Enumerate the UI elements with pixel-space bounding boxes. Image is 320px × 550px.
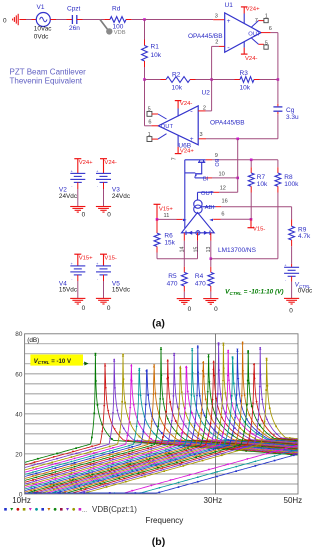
svg-text:VDB(Cpzt:1): VDB(Cpzt:1) xyxy=(92,505,137,514)
svg-text:2: 2 xyxy=(203,105,206,111)
power V24- (net flag) xyxy=(100,158,107,160)
pin 15 wire xyxy=(197,233,199,241)
op-amp U1 OPA445/BB xyxy=(225,13,261,52)
pin 16 ABI wire xyxy=(202,206,215,208)
svg-text:80: 80 xyxy=(15,331,23,338)
junction xyxy=(250,218,253,221)
no-connect pin 1 (U1) xyxy=(251,21,258,28)
svg-text:+: + xyxy=(227,18,231,25)
U2 pin 2 wire xyxy=(198,110,205,112)
svg-text:V24-: V24- xyxy=(180,101,192,107)
svg-text:10k: 10k xyxy=(172,84,183,91)
OTA triangle xyxy=(182,213,215,233)
svg-text:OUT: OUT xyxy=(161,124,174,130)
svg-text:(dB): (dB) xyxy=(27,337,39,344)
svg-text:+: + xyxy=(284,263,286,267)
junction xyxy=(210,257,213,260)
svg-text:60: 60 xyxy=(15,371,23,378)
svg-text:470: 470 xyxy=(195,280,206,287)
svg-text:V15+: V15+ xyxy=(159,206,173,212)
battery V5 15Vdc xyxy=(103,254,105,266)
U2 output pin 6 xyxy=(151,125,158,127)
junction xyxy=(236,138,239,141)
pin 11 wire (V+) xyxy=(183,219,187,222)
svg-text:V15-: V15- xyxy=(104,256,116,262)
svg-text:+: + xyxy=(71,169,73,173)
svg-text:6: 6 xyxy=(221,212,224,218)
svg-text:R4: R4 xyxy=(195,273,204,280)
svg-text:5: 5 xyxy=(148,107,151,113)
svg-text:1: 1 xyxy=(265,13,268,19)
wire R8 bottom to pin 13 xyxy=(211,258,278,260)
no-connect pin 5 (U2) xyxy=(147,111,152,116)
svg-text:R7: R7 xyxy=(257,174,266,181)
svg-text:V24+: V24+ xyxy=(79,160,93,166)
pin 9 BO wire xyxy=(206,159,212,161)
junction xyxy=(156,218,159,221)
wire (vertical x=237.7) xyxy=(237,139,239,178)
ground (V2) xyxy=(70,206,85,208)
OTA U6B LM13700/NS symbol spine xyxy=(184,160,186,228)
svg-text:10Vac: 10Vac xyxy=(34,26,52,33)
svg-text:U1: U1 xyxy=(225,2,234,9)
transistor Q2 (buffer Darlington bottom) xyxy=(195,173,202,175)
svg-text:15Vdc: 15Vdc xyxy=(59,287,78,294)
svg-text:R6: R6 xyxy=(164,232,173,239)
svg-text:V15+: V15+ xyxy=(79,256,93,262)
AC source V1 xyxy=(36,13,50,27)
capacitor Cpzt xyxy=(71,15,73,24)
svg-text:14: 14 xyxy=(179,247,185,253)
horizontal gridlines xyxy=(25,343,298,345)
battery V3 24Vdc xyxy=(103,159,105,174)
svg-text:20: 20 xyxy=(15,451,23,458)
resistor R1 xyxy=(144,20,146,40)
svg-text:3: 3 xyxy=(200,132,203,138)
no-connect pin 5 (U1) xyxy=(251,38,258,44)
svg-text:U2: U2 xyxy=(202,90,211,97)
svg-text:10Hz: 10Hz xyxy=(12,496,31,505)
resistor R7 xyxy=(250,160,252,167)
junction xyxy=(236,177,239,180)
svg-text:OPA445/BB: OPA445/BB xyxy=(210,120,245,127)
power V15+ xyxy=(154,203,161,205)
svg-text:ABI: ABI xyxy=(205,205,215,211)
svg-text:0: 0 xyxy=(82,212,86,219)
svg-text:30Hz: 30Hz xyxy=(204,496,223,505)
svg-text:(b): (b) xyxy=(152,536,165,548)
svg-text:24Vdc: 24Vdc xyxy=(112,193,131,200)
svg-text:26n: 26n xyxy=(69,25,80,32)
resistor R6 xyxy=(156,219,158,233)
resistor Rd xyxy=(104,19,110,21)
svg-text:4.7k: 4.7k xyxy=(298,233,311,240)
wire xyxy=(50,19,56,21)
svg-text:15Vdc: 15Vdc xyxy=(112,287,131,294)
svg-text:6: 6 xyxy=(269,26,272,32)
battery V4 15Vdc xyxy=(77,254,79,266)
pin 14 wire xyxy=(183,233,185,241)
svg-text:6: 6 xyxy=(148,120,151,126)
svg-text:3.3u: 3.3u xyxy=(286,114,299,121)
svg-text:V24-: V24- xyxy=(245,56,257,62)
svg-text:R8: R8 xyxy=(284,174,293,181)
ground (V5) xyxy=(96,297,111,299)
svg-text:2: 2 xyxy=(215,40,218,46)
junction xyxy=(143,78,146,81)
svg-text:100k: 100k xyxy=(284,181,299,188)
power V15- xyxy=(250,219,252,227)
svg-text:(a): (a) xyxy=(152,318,165,330)
svg-text:R5: R5 xyxy=(168,273,177,280)
svg-text:Cpzt: Cpzt xyxy=(67,5,81,12)
power V24+ (net flag) xyxy=(74,158,81,160)
junction xyxy=(250,159,253,162)
svg-text:10k: 10k xyxy=(240,84,251,91)
svg-text:5: 5 xyxy=(265,40,268,46)
ground 0 (input source) xyxy=(17,14,19,25)
pin 12 OUT wire xyxy=(197,192,199,200)
svg-text:0: 0 xyxy=(82,305,86,312)
curves xyxy=(25,341,320,494)
svg-text:LM13700/NS: LM13700/NS xyxy=(218,247,257,254)
battery VCTRL xyxy=(291,264,293,267)
svg-text:R1: R1 xyxy=(151,44,160,51)
power V24+ (U1 pin 7) xyxy=(241,6,248,8)
svg-text:11: 11 xyxy=(164,213,170,219)
ground (R4) xyxy=(203,298,218,300)
ground (VCTRL) xyxy=(284,297,299,299)
power V24+ (U2 pin 7) xyxy=(177,135,179,147)
svg-text:3: 3 xyxy=(215,14,218,20)
svg-text:+: + xyxy=(96,262,98,266)
svg-text:BO: BO xyxy=(213,159,219,167)
svg-text:Rd: Rd xyxy=(112,5,121,12)
current mirror circles xyxy=(194,200,202,208)
resistor R9 xyxy=(291,207,293,220)
svg-text:Frequency: Frequency xyxy=(146,516,184,525)
svg-text:...: ... xyxy=(82,508,87,514)
svg-text:470: 470 xyxy=(167,280,178,287)
svg-text:0: 0 xyxy=(214,306,218,313)
svg-text:13: 13 xyxy=(206,247,212,253)
svg-text:0: 0 xyxy=(289,308,293,315)
wire R6 to pin 15 xyxy=(157,258,198,260)
svg-text:R3: R3 xyxy=(240,70,249,77)
svg-text:0: 0 xyxy=(107,212,111,219)
svg-text:12: 12 xyxy=(220,186,226,192)
vertical gridline 30Hz xyxy=(214,334,216,494)
svg-text:0Vdc: 0Vdc xyxy=(298,288,313,295)
wire xyxy=(77,19,83,21)
svg-text:BI: BI xyxy=(203,177,209,183)
power V24- (U1 pin 4) xyxy=(243,42,245,48)
wire xyxy=(26,19,32,21)
svg-text:VDB: VDB xyxy=(114,30,126,36)
wire to U1 pin 3 xyxy=(145,19,214,21)
resistor R2 xyxy=(145,79,161,81)
battery V2 24Vdc xyxy=(77,159,79,174)
ground (V4) xyxy=(70,297,85,299)
svg-text:V24+: V24+ xyxy=(246,6,260,12)
svg-text:V24-: V24- xyxy=(104,160,116,166)
svg-text:0Vdc: 0Vdc xyxy=(34,33,49,40)
svg-text:0: 0 xyxy=(107,305,111,312)
transistor Q1 (buffer Darlington top) xyxy=(198,161,205,163)
power V15+ (net flag) xyxy=(74,253,81,255)
svg-text:15k: 15k xyxy=(164,239,175,246)
svg-text:R2: R2 xyxy=(172,71,181,78)
junction xyxy=(277,78,280,81)
resistor R8 xyxy=(277,160,279,167)
svg-text:50Hz: 50Hz xyxy=(284,496,303,505)
probe VDB xyxy=(100,20,107,30)
svg-text:V15-: V15- xyxy=(253,227,265,233)
svg-text:OUT: OUT xyxy=(248,31,261,37)
resistor R4 xyxy=(210,259,212,267)
svg-text:OUT: OUT xyxy=(201,191,214,197)
svg-text:10k: 10k xyxy=(151,52,162,59)
wire xyxy=(212,79,235,81)
svg-text:24Vdc: 24Vdc xyxy=(59,193,78,200)
diode D2 (bias, right) xyxy=(209,231,211,235)
U1 pin 2 wire xyxy=(219,45,225,47)
svg-text:7: 7 xyxy=(172,157,178,160)
svg-text:10: 10 xyxy=(219,172,225,178)
ground (R5) xyxy=(177,298,192,300)
wire U1 out bus xyxy=(277,33,279,80)
op-amp U2 OPA445/BB (mirrored) xyxy=(158,106,198,145)
yellow VCTRL=-10V label xyxy=(30,355,83,366)
power V15- (net flag) xyxy=(100,253,107,255)
wire xyxy=(260,79,278,81)
svg-text:+: + xyxy=(96,169,98,173)
svg-text:0: 0 xyxy=(188,306,192,313)
pin 10 BI wire xyxy=(206,177,213,179)
svg-text:+: + xyxy=(71,262,73,266)
svg-text:0: 0 xyxy=(3,17,7,24)
wire xyxy=(132,19,145,21)
capacitor Cg xyxy=(273,106,282,108)
ground (V3) xyxy=(96,206,111,208)
no-connect pin 1 (U2) xyxy=(147,137,152,142)
resistor R5 xyxy=(183,267,185,273)
svg-text:16: 16 xyxy=(222,198,228,204)
frequency response chart frame xyxy=(25,334,298,494)
junction xyxy=(210,78,213,81)
bias current source circle xyxy=(196,231,200,235)
power V24- (U2 pin 4) xyxy=(175,100,182,102)
svg-text:U6B: U6B xyxy=(178,143,191,150)
diode D1 (bias, left) xyxy=(185,231,187,235)
svg-text:Cg: Cg xyxy=(286,107,295,114)
pin 13 wire xyxy=(210,233,212,241)
svg-text:40: 40 xyxy=(15,411,23,418)
svg-text:Thevenin Equivalent: Thevenin Equivalent xyxy=(10,76,83,85)
legend trace symbols xyxy=(4,508,7,511)
wire xyxy=(196,79,212,81)
svg-text:V1: V1 xyxy=(37,4,45,11)
svg-text:15: 15 xyxy=(193,247,199,253)
svg-text:10k: 10k xyxy=(257,181,268,188)
pin 6 wire (V-) xyxy=(209,219,213,222)
resistor R3 xyxy=(235,79,241,81)
svg-text:100: 100 xyxy=(113,23,124,30)
svg-text:PZT Beam Cantilever: PZT Beam Cantilever xyxy=(10,68,87,77)
svg-text:1: 1 xyxy=(148,132,151,138)
junction xyxy=(143,18,146,21)
wire Cg to U2 pin 3 row xyxy=(277,114,279,139)
